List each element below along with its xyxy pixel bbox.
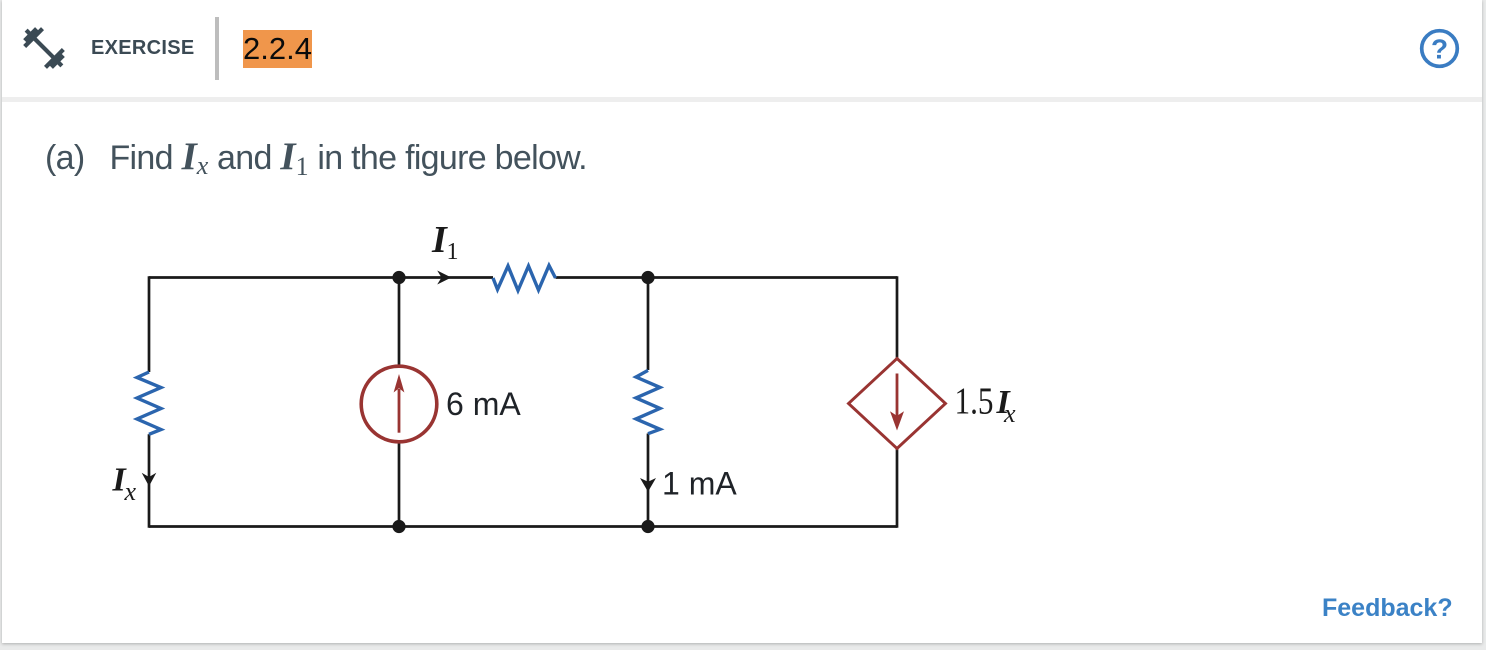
node bottom-right junction xyxy=(641,520,654,533)
arrow 1 mA downward xyxy=(640,478,656,492)
svg-text:6 mA: 6 mA xyxy=(446,386,521,422)
wire left rail lower xyxy=(148,434,151,528)
arrow I1 on top wire xyxy=(437,271,451,285)
arrow Ix downward xyxy=(142,473,157,487)
svg-text:x: x xyxy=(124,477,137,506)
wire bottom xyxy=(149,525,897,528)
wire middle branch 1 upper xyxy=(398,278,401,367)
wire middle branch 2 lower xyxy=(647,434,650,527)
dependent source diamond xyxy=(849,359,946,449)
svg-text:1 mA: 1 mA xyxy=(662,466,737,502)
wire middle branch 1 lower xyxy=(398,442,401,527)
current source 6 mA arrow xyxy=(398,389,401,433)
wire left rail upper xyxy=(148,276,151,372)
svg-text:x: x xyxy=(1003,399,1016,428)
node top-left junction xyxy=(392,271,405,284)
dependent source arrow xyxy=(896,374,899,417)
wire middle branch 2 upper xyxy=(647,278,650,371)
resistor left (Ix branch) xyxy=(137,372,161,434)
question text xyxy=(45,140,587,178)
current source 6 mA circle xyxy=(361,366,437,442)
vertical divider bar xyxy=(215,17,219,80)
resistor horizontal (I1 branch) xyxy=(493,266,556,291)
svg-text:1: 1 xyxy=(447,239,459,265)
exercise dumbbell icon xyxy=(19,23,69,73)
wire right rail upper xyxy=(896,276,899,359)
EXERCISE label xyxy=(91,38,195,58)
resistor middle (1 mA branch) xyxy=(636,370,660,433)
help icon xyxy=(1419,28,1460,69)
header divider xyxy=(2,97,1482,102)
node bottom-left junction xyxy=(392,520,405,533)
node top-right junction xyxy=(641,271,654,284)
svg-text:I: I xyxy=(431,219,448,261)
wire top xyxy=(149,276,493,279)
wire right rail lower xyxy=(896,448,899,528)
svg-text:1.5: 1.5 xyxy=(955,381,994,423)
exercise number highlight xyxy=(243,30,312,68)
feedback link xyxy=(1322,596,1453,621)
